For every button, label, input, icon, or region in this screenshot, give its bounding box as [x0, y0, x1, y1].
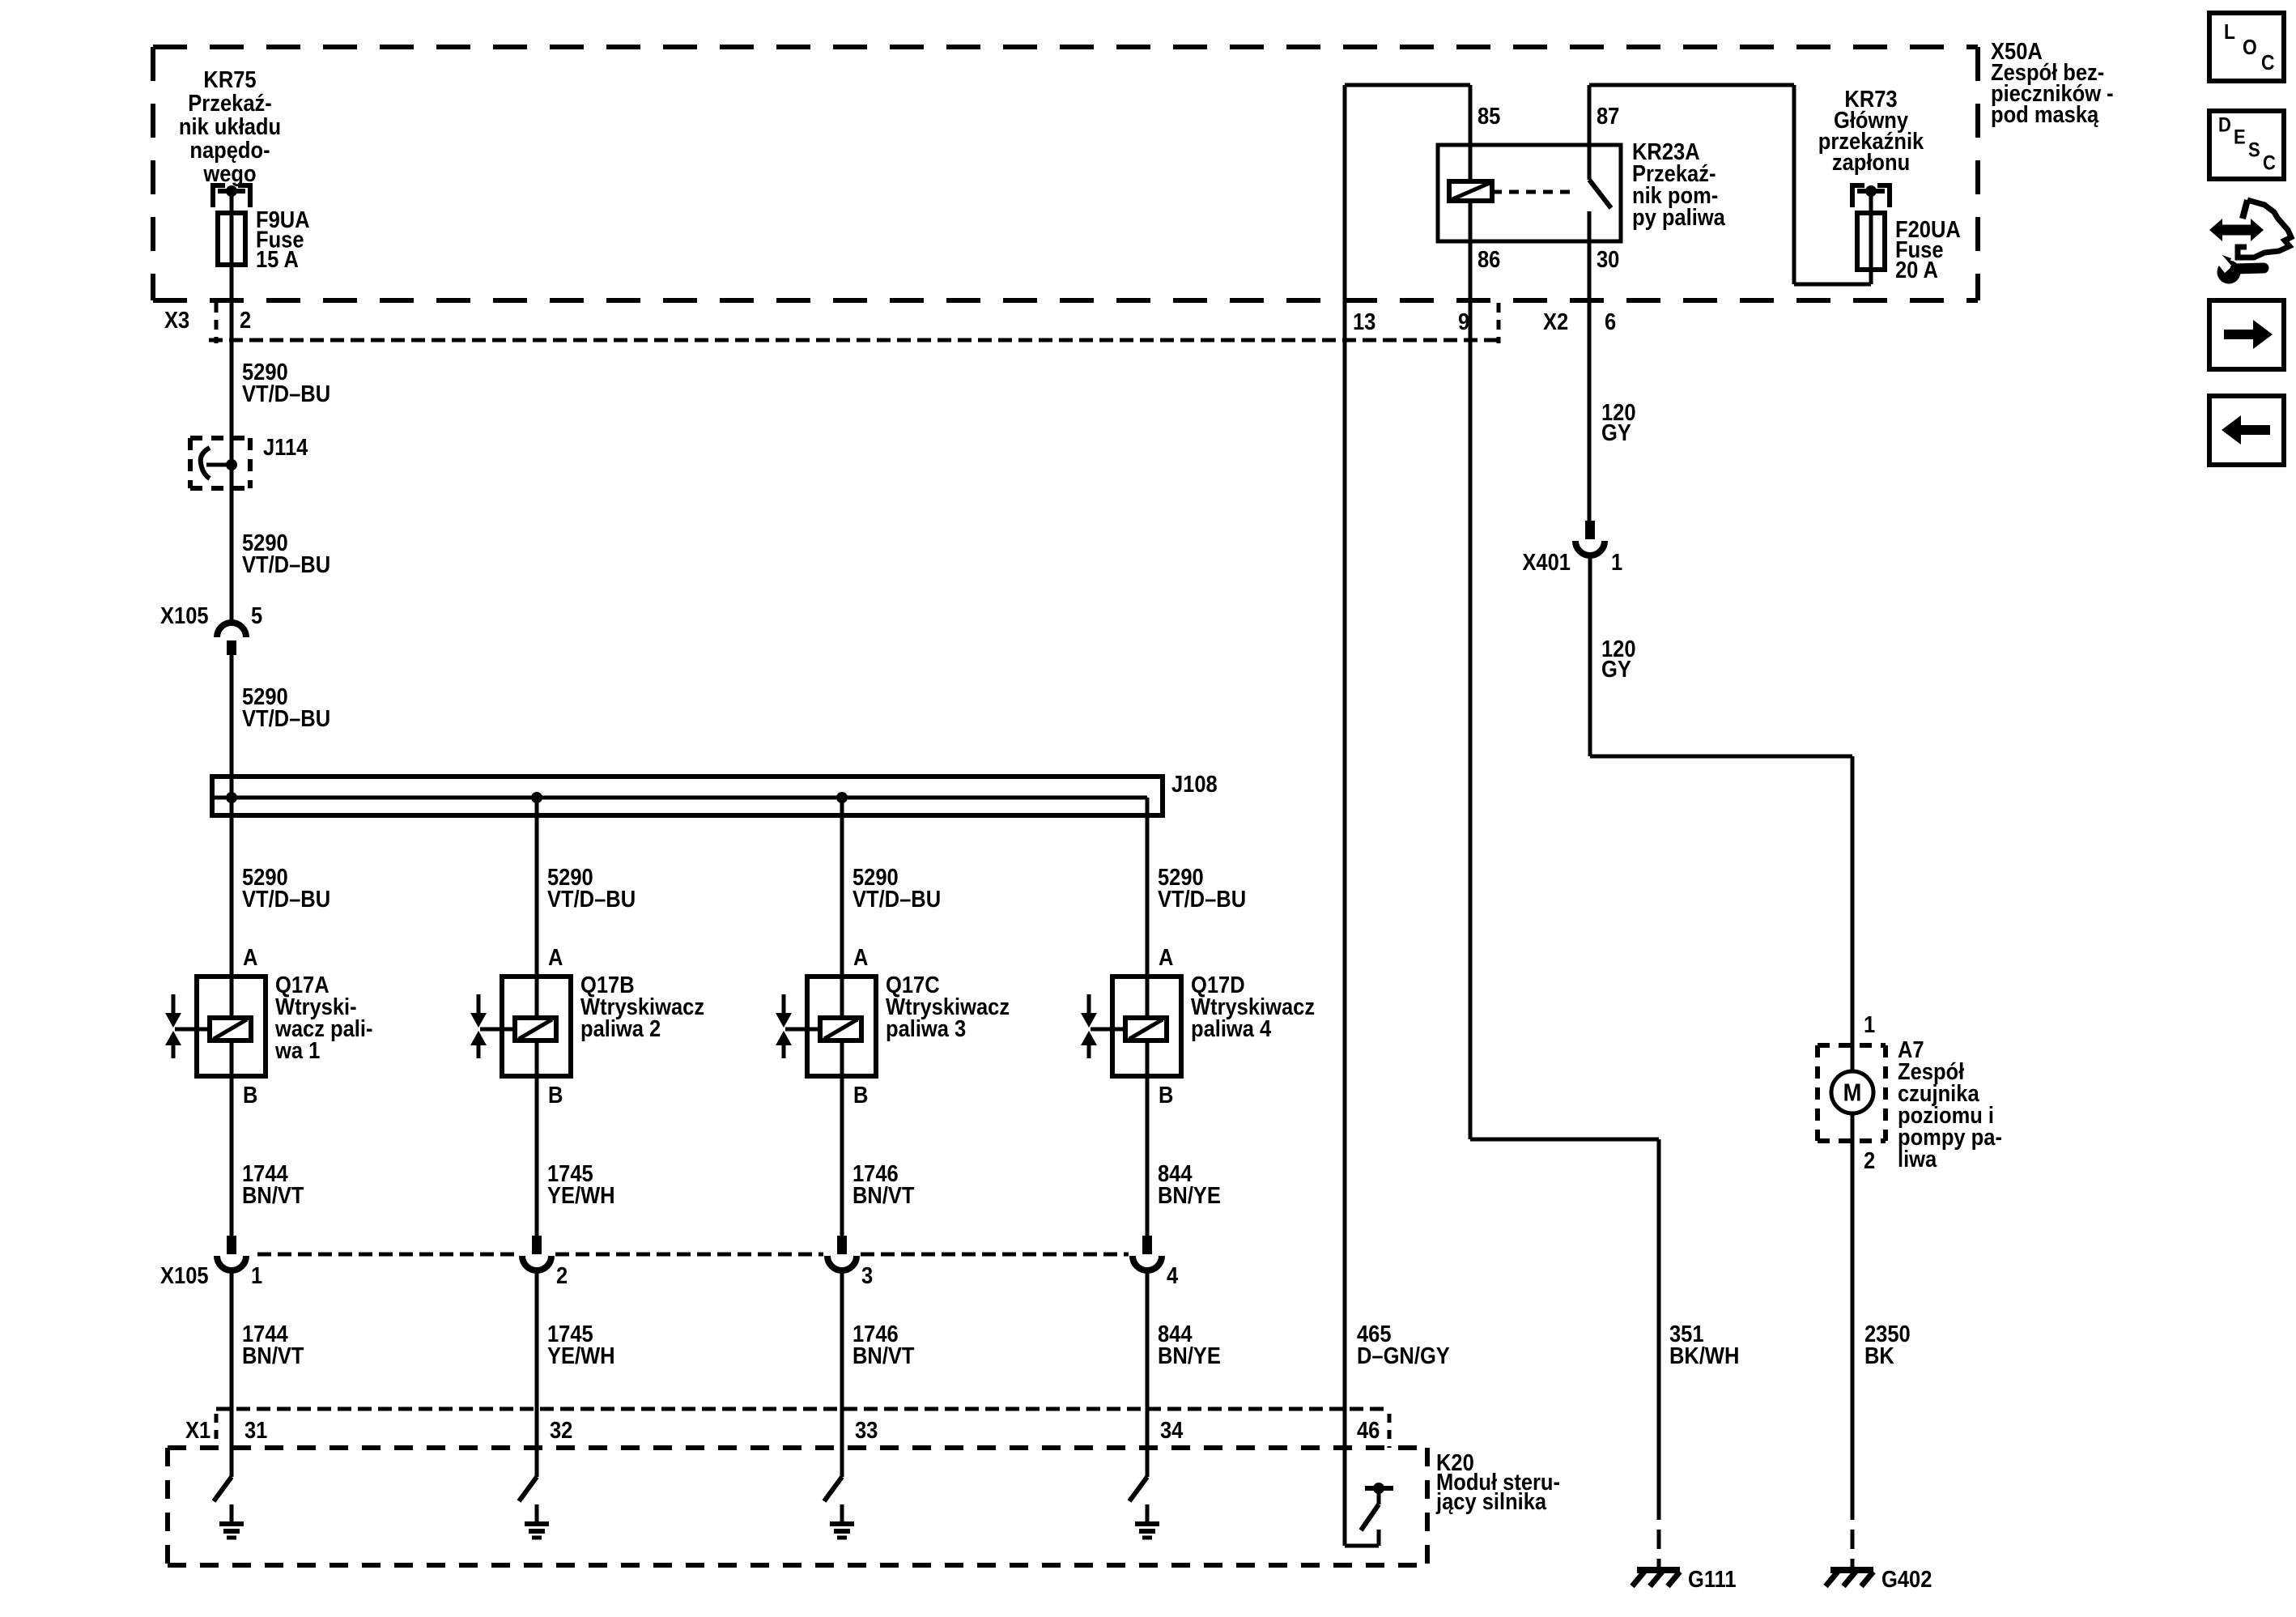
- svg-text:YE/WH: YE/WH: [547, 1182, 615, 1209]
- svg-text:S: S: [2248, 138, 2260, 161]
- svg-text:L: L: [2224, 21, 2235, 45]
- svg-text:O: O: [2243, 36, 2257, 60]
- svg-text:VT/D–BU: VT/D–BU: [547, 886, 636, 913]
- svg-text:30: 30: [1597, 246, 1619, 273]
- svg-text:paliwa 3: paliwa 3: [886, 1015, 966, 1042]
- svg-text:zapłonu: zapłonu: [1832, 149, 1910, 176]
- svg-text:BN/YE: BN/YE: [1158, 1182, 1221, 1209]
- svg-text:3: 3: [861, 1262, 873, 1289]
- svg-text:34: 34: [1160, 1417, 1184, 1444]
- svg-text:J114: J114: [263, 434, 308, 461]
- svg-text:VT/D–BU: VT/D–BU: [1158, 886, 1246, 913]
- svg-text:VT/D–BU: VT/D–BU: [242, 886, 330, 913]
- svg-text:nik układu: nik układu: [179, 113, 281, 140]
- svg-text:BN/YE: BN/YE: [1158, 1343, 1221, 1369]
- svg-text:2: 2: [1864, 1147, 1875, 1174]
- svg-text:31: 31: [244, 1417, 267, 1444]
- svg-text:X3: X3: [164, 307, 189, 334]
- svg-text:napędo-: napędo-: [189, 137, 270, 164]
- svg-text:15 A: 15 A: [256, 246, 299, 273]
- svg-text:wa 1: wa 1: [274, 1037, 320, 1064]
- svg-text:BN/VT: BN/VT: [852, 1343, 915, 1369]
- svg-text:85: 85: [1478, 103, 1500, 130]
- svg-text:87: 87: [1597, 103, 1619, 130]
- svg-text:X401: X401: [1522, 549, 1571, 576]
- svg-text:M: M: [1843, 1079, 1862, 1107]
- svg-text:B: B: [853, 1082, 868, 1108]
- svg-text:GY: GY: [1601, 656, 1631, 683]
- svg-text:A: A: [243, 944, 257, 971]
- svg-text:5: 5: [251, 602, 262, 629]
- svg-text:1: 1: [1611, 549, 1622, 576]
- svg-text:B: B: [1159, 1082, 1173, 1108]
- svg-text:BK: BK: [1864, 1343, 1894, 1369]
- svg-text:py paliwa: py paliwa: [1632, 204, 1726, 231]
- svg-text:A: A: [853, 944, 868, 971]
- svg-text:2: 2: [240, 307, 251, 334]
- svg-text:KR75: KR75: [203, 66, 256, 93]
- svg-text:20 A: 20 A: [1895, 257, 1938, 283]
- svg-text:86: 86: [1478, 246, 1500, 273]
- svg-text:6: 6: [1605, 309, 1616, 335]
- svg-text:X105: X105: [160, 602, 209, 629]
- svg-text:BN/VT: BN/VT: [242, 1182, 304, 1209]
- svg-text:liwa: liwa: [1898, 1146, 1937, 1172]
- svg-text:jący silnika: jący silnika: [1435, 1488, 1547, 1515]
- svg-text:VT/D–BU: VT/D–BU: [852, 886, 941, 913]
- svg-text:C: C: [2263, 151, 2276, 174]
- svg-text:2: 2: [556, 1262, 568, 1289]
- svg-text:9: 9: [1458, 309, 1469, 335]
- svg-text:VT/D–BU: VT/D–BU: [242, 551, 330, 578]
- svg-text:C: C: [2261, 52, 2275, 75]
- svg-text:A: A: [548, 944, 563, 971]
- svg-text:BK/WH: BK/WH: [1669, 1343, 1739, 1369]
- svg-text:YE/WH: YE/WH: [547, 1343, 615, 1369]
- svg-text:33: 33: [855, 1417, 878, 1444]
- svg-text:G402: G402: [1881, 1566, 1932, 1593]
- svg-text:32: 32: [550, 1417, 572, 1444]
- svg-text:wego: wego: [202, 160, 256, 187]
- svg-text:X105: X105: [160, 1262, 209, 1289]
- svg-text:4: 4: [1167, 1262, 1179, 1289]
- svg-text:Przekaź-: Przekaź-: [188, 90, 271, 117]
- svg-text:paliwa 4: paliwa 4: [1191, 1015, 1272, 1042]
- svg-text:BN/VT: BN/VT: [242, 1343, 304, 1369]
- svg-text:B: B: [548, 1082, 563, 1108]
- svg-text:X2: X2: [1543, 309, 1568, 335]
- svg-text:pod maską: pod maską: [1991, 101, 2099, 128]
- svg-text:X1: X1: [185, 1417, 210, 1444]
- svg-text:A: A: [1159, 944, 1173, 971]
- svg-text:D: D: [2218, 113, 2231, 136]
- svg-text:VT/D–BU: VT/D–BU: [242, 381, 330, 407]
- svg-text:1: 1: [251, 1262, 262, 1289]
- svg-text:1: 1: [1864, 1011, 1875, 1038]
- svg-text:13: 13: [1353, 309, 1375, 335]
- svg-text:J108: J108: [1171, 771, 1218, 798]
- svg-text:B: B: [243, 1082, 257, 1108]
- svg-text:46: 46: [1357, 1417, 1380, 1444]
- svg-text:BN/VT: BN/VT: [852, 1182, 915, 1209]
- svg-text:G111: G111: [1688, 1566, 1737, 1593]
- svg-text:VT/D–BU: VT/D–BU: [242, 705, 330, 732]
- svg-text:GY: GY: [1601, 419, 1631, 446]
- svg-text:D–GN/GY: D–GN/GY: [1357, 1343, 1450, 1369]
- svg-text:E: E: [2234, 126, 2246, 148]
- svg-text:paliwa 2: paliwa 2: [580, 1015, 661, 1042]
